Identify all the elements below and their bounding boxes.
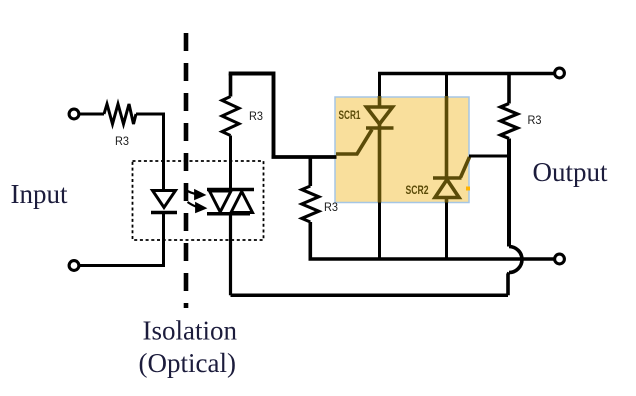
wire <box>136 114 164 191</box>
wire hop over output rail <box>509 247 522 273</box>
bottom rail <box>231 293 509 297</box>
wire SCR2 gate to R3 node <box>469 155 511 158</box>
svg-text:R3: R3 <box>528 113 542 127</box>
output terminal bottom <box>555 254 565 264</box>
gate bus wire <box>272 155 337 159</box>
wire <box>79 264 166 267</box>
svg-text:(Optical): (Optical) <box>139 348 236 378</box>
wire lower output rail <box>309 257 554 260</box>
SCR1 <box>336 96 394 203</box>
marker dot <box>466 187 470 191</box>
svg-text:SCR1: SCR1 <box>339 110 361 122</box>
opto triac <box>207 136 254 296</box>
wire R3 top lead <box>229 74 233 97</box>
input terminal bottom <box>69 261 79 271</box>
svg-text:SCR2: SCR2 <box>406 185 429 197</box>
wire SCR1 cathode <box>378 202 381 260</box>
svg-text:R3: R3 <box>249 109 263 123</box>
svg-text:R3: R3 <box>324 200 338 214</box>
optocoupler dotted box <box>133 161 264 240</box>
wire SCR1 anode <box>378 74 381 99</box>
svg-text:Output: Output <box>533 157 609 187</box>
wire <box>162 213 165 266</box>
wire SCR2 anode <box>445 202 448 260</box>
svg-text:R3: R3 <box>115 134 129 148</box>
wire top rail <box>378 72 555 76</box>
light arrows <box>187 191 205 212</box>
wire hook over isolation to gate bus <box>229 74 274 158</box>
resistor R3 (gate pulldown) <box>308 156 312 187</box>
wire <box>79 113 105 116</box>
orange highlight box <box>335 97 469 203</box>
output terminal top <box>555 68 565 78</box>
resistor R3 (input series) <box>104 104 136 124</box>
wire to bottom rail <box>508 273 509 296</box>
resistor R3 (output) <box>507 74 511 104</box>
wire SCR2 top <box>445 74 448 99</box>
LED D1 (opto emitter) <box>153 191 176 208</box>
svg-text:Isolation: Isolation <box>143 316 238 346</box>
resistor R3 (opto MT2) <box>222 97 239 136</box>
SCR2 <box>433 96 470 203</box>
isolation dashed line <box>184 33 189 308</box>
input terminal top <box>69 109 79 119</box>
svg-text:Input: Input <box>11 179 68 209</box>
